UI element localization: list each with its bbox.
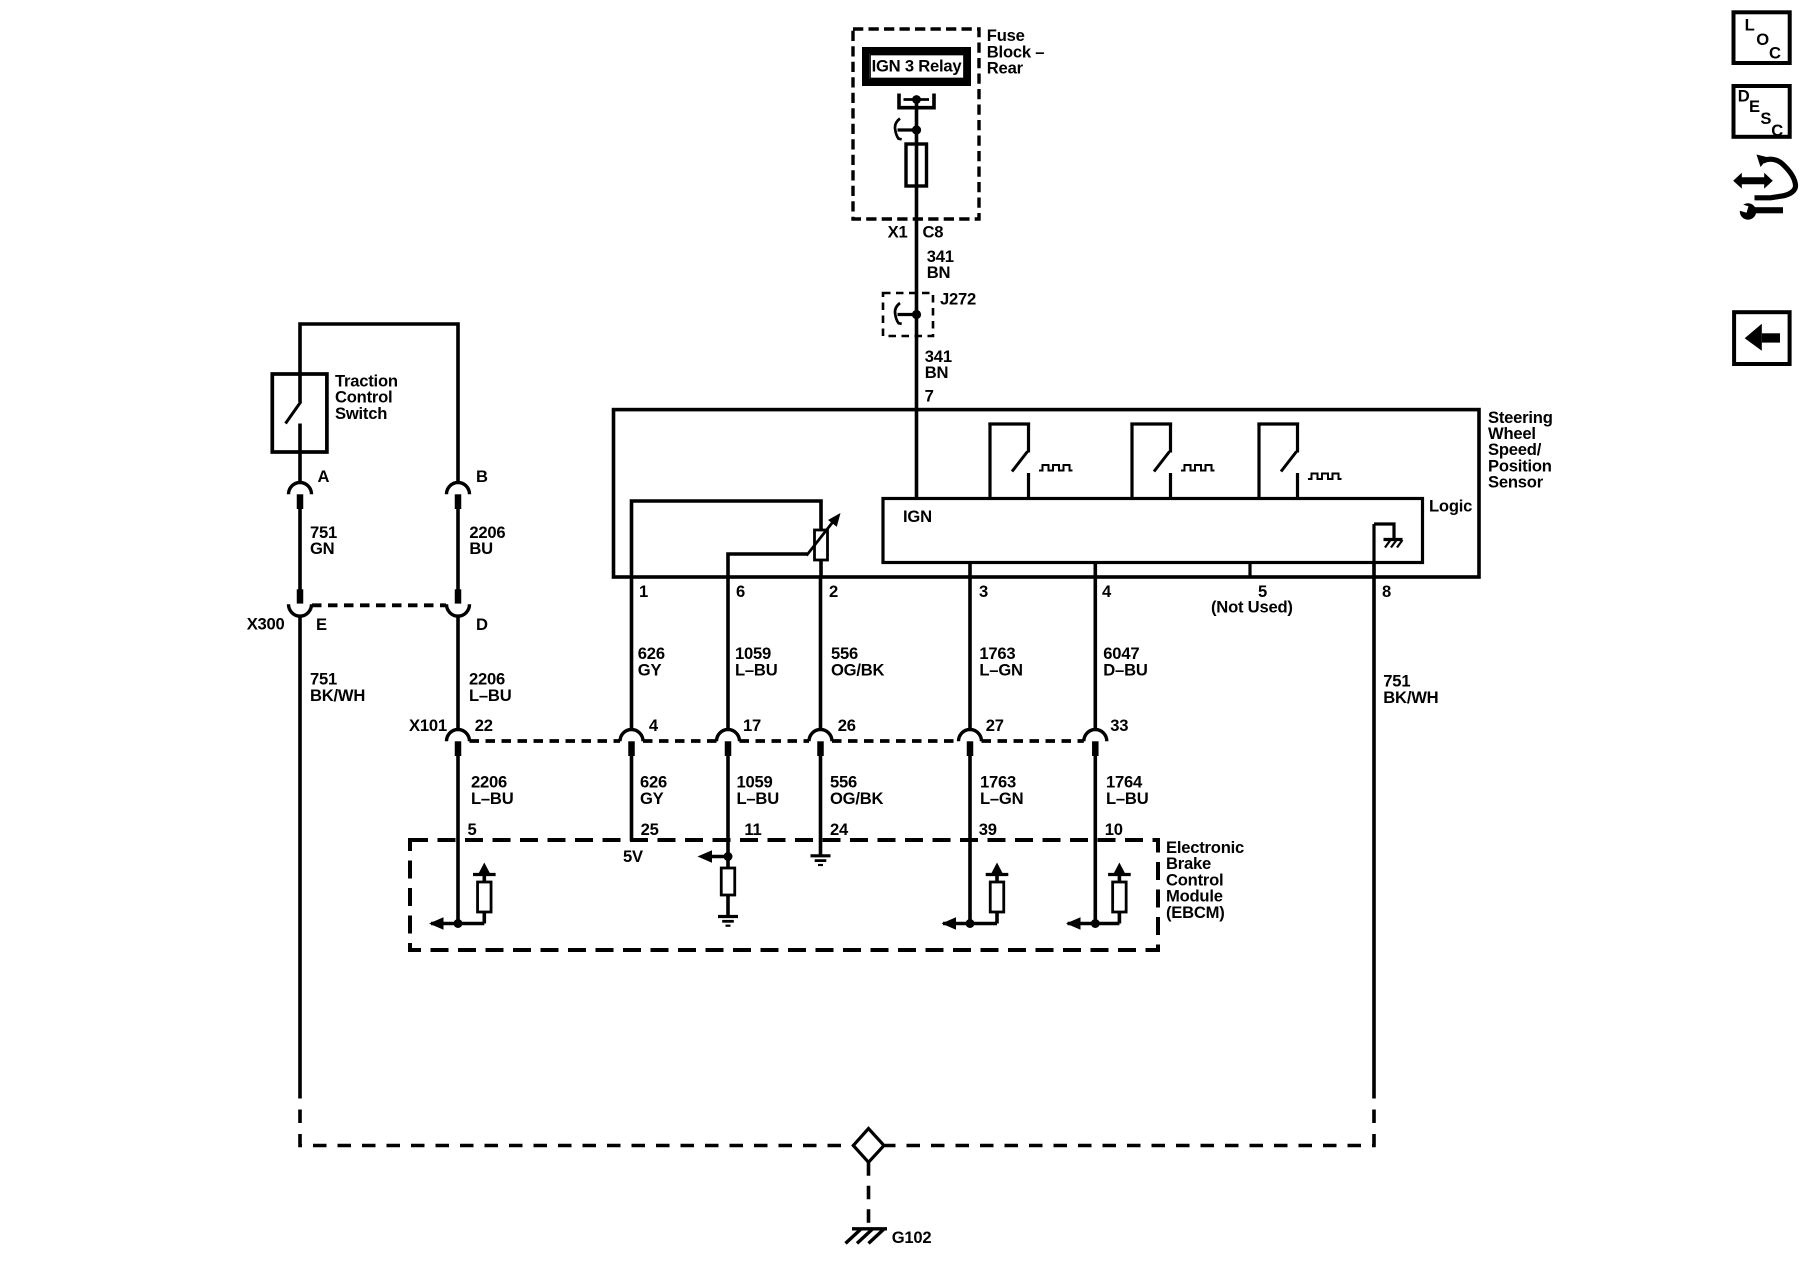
svg-text:L–BU: L–BU <box>737 789 779 808</box>
potentiometer arrow <box>807 521 835 556</box>
svg-text:G102: G102 <box>892 1228 932 1247</box>
X101 pin 27 connector <box>959 730 982 742</box>
svg-text:B: B <box>476 467 488 486</box>
svg-text:8: 8 <box>1382 582 1391 601</box>
svg-text:7: 7 <box>925 387 934 406</box>
EBCM circuit pin 24: ground <box>811 854 831 857</box>
svg-text:OG/BK: OG/BK <box>831 660 885 679</box>
svg-text:BN: BN <box>927 263 951 282</box>
splice J272 dashed box <box>883 293 933 336</box>
connector X101 dashed line <box>470 739 621 743</box>
steering wheel speed/position sensor box <box>614 410 1480 577</box>
X101 pin 4 connector <box>620 730 643 742</box>
svg-text:25: 25 <box>641 820 659 839</box>
svg-text:A: A <box>318 467 330 486</box>
svg-text:6: 6 <box>736 582 745 601</box>
svg-text:E: E <box>1749 97 1760 116</box>
traction control switch box <box>272 374 327 452</box>
square wave 3 <box>1308 474 1342 480</box>
potentiometer <box>815 530 828 560</box>
diagnostic icon double arrow <box>1741 177 1765 184</box>
svg-text:L–BU: L–BU <box>735 660 777 679</box>
wire 751 BK/WH left <box>298 616 302 1085</box>
svg-text:E: E <box>316 615 327 634</box>
svg-text:11: 11 <box>744 820 761 839</box>
DESC icon box <box>1734 86 1790 137</box>
dashed wire splice to G102 <box>867 1162 871 1227</box>
splice diamond <box>853 1129 884 1163</box>
svg-text:C: C <box>1771 121 1783 140</box>
svg-text:Switch: Switch <box>335 404 387 423</box>
svg-text:OG/BK: OG/BK <box>830 789 884 808</box>
EBCM circuit pin 10: junction, left arrow, pull-up resistor <box>1068 922 1120 926</box>
TCS lower stub to pin A <box>298 424 302 483</box>
wire 626 GY to EBCM 25 <box>630 756 634 841</box>
dashed wire 751 BK/WH right to splice <box>885 1085 1374 1146</box>
svg-text:BK/WH: BK/WH <box>310 686 365 705</box>
svg-text:2: 2 <box>829 582 838 601</box>
svg-text:D: D <box>1738 86 1750 105</box>
svg-text:3: 3 <box>979 582 988 601</box>
dashed wire 751 BK/WH left to splice <box>300 1085 852 1146</box>
TCS upper contact stub <box>298 374 302 402</box>
wire 1763 L-GN to EBCM 39 <box>968 756 972 924</box>
svg-text:4: 4 <box>1102 582 1112 601</box>
svg-text:(EBCM): (EBCM) <box>1166 903 1225 922</box>
svg-text:GY: GY <box>640 789 664 808</box>
LOC icon box <box>1734 12 1790 63</box>
svg-text:D: D <box>476 615 488 634</box>
internal ground of logic <box>1374 524 1394 538</box>
svg-text:4: 4 <box>649 716 659 735</box>
wire 1059 L-BU pin6 <box>726 577 730 729</box>
wire 1059 L-BU to EBCM 11 <box>726 756 730 868</box>
X101 pin 33 connector <box>1084 730 1107 742</box>
svg-text:Sensor: Sensor <box>1488 473 1544 492</box>
potentiometer top wire from pin 1 <box>632 501 822 577</box>
wire 6047 D-BU pin4 <box>1094 563 1098 730</box>
X101 pin 22 connector <box>447 730 470 742</box>
svg-text:5V: 5V <box>623 847 643 866</box>
svg-text:17: 17 <box>743 716 761 735</box>
svg-text:S: S <box>1760 109 1771 128</box>
wire 2206 L-BU to EBCM 5 <box>456 756 460 924</box>
TCS switch arm <box>286 402 302 424</box>
relay switch arm <box>898 128 917 131</box>
connector X300 dashed line <box>312 603 446 607</box>
svg-text:24: 24 <box>830 820 849 839</box>
wire pin 8 to ground cap <box>1372 524 1375 563</box>
svg-text:J272: J272 <box>940 290 976 309</box>
svg-text:33: 33 <box>1110 716 1128 735</box>
wire 626 GY pin1 <box>630 577 634 729</box>
X101 pin 26 connector <box>809 730 832 742</box>
EBCM circuit pin 11: left arrow junction, resistor to ground <box>711 855 728 859</box>
X101 pin 17 connector <box>717 730 740 742</box>
svg-text:C: C <box>1769 44 1781 63</box>
svg-text:X101: X101 <box>409 716 447 735</box>
svg-text:Logic: Logic <box>1429 497 1472 516</box>
wire 556 OG/BK to EBCM 24 <box>819 756 823 856</box>
wire 2206 BU <box>456 509 460 590</box>
relay contact bracket <box>899 94 934 108</box>
wire from relay through fuse to SWPS pin 7 <box>915 100 919 499</box>
pin B connector <box>447 483 470 495</box>
svg-text:X300: X300 <box>247 615 285 634</box>
svg-text:27: 27 <box>986 716 1004 735</box>
fuse <box>906 144 927 186</box>
pin 5 stub (not used) <box>1248 563 1251 578</box>
ground G102 symbol <box>852 1227 887 1230</box>
svg-text:L–BU: L–BU <box>471 789 513 808</box>
fuse block - rear dashed box <box>853 29 979 219</box>
EBCM circuit pin 5: junction, left arrow, pull-up resistor <box>431 922 484 926</box>
svg-text:(Not Used): (Not Used) <box>1211 598 1293 617</box>
potentiometer wiper wire from pin 6 <box>728 554 807 577</box>
svg-text:GN: GN <box>310 539 334 558</box>
svg-text:BK/WH: BK/WH <box>1383 688 1438 707</box>
svg-text:10: 10 <box>1105 820 1123 839</box>
svg-text:L–BU: L–BU <box>469 686 511 705</box>
logic box <box>883 499 1423 563</box>
IGN 3 Relay label box <box>866 51 968 83</box>
svg-text:5: 5 <box>468 820 477 839</box>
X300 pin D connector <box>455 589 462 603</box>
svg-text:C8: C8 <box>923 223 944 242</box>
sensor switch 1 <box>988 422 1030 425</box>
svg-text:IGN: IGN <box>903 507 932 526</box>
wire 751 BK/WH pin8 <box>1372 563 1376 1086</box>
wire pin 2 from potentiometer <box>819 560 823 577</box>
svg-text:1: 1 <box>639 582 648 601</box>
svg-text:IGN 3 Relay: IGN 3 Relay <box>872 57 963 76</box>
svg-text:O: O <box>1756 30 1769 49</box>
pin A connector <box>289 483 312 495</box>
wire 1764 L-BU to EBCM 10 <box>1094 756 1098 924</box>
diagnostic icon curved arrow <box>1755 159 1796 198</box>
wire 1763 L-GN pin3 <box>968 563 972 730</box>
square wave 2 <box>1181 465 1215 471</box>
square wave 1 <box>1039 465 1073 471</box>
sensor switch 2 <box>1130 422 1172 425</box>
svg-text:26: 26 <box>838 716 856 735</box>
svg-text:39: 39 <box>979 820 997 839</box>
EBCM dashed box <box>410 840 1158 950</box>
svg-text:L–GN: L–GN <box>979 660 1022 679</box>
svg-text:L: L <box>1745 16 1755 35</box>
svg-text:X1: X1 <box>888 223 908 242</box>
svg-text:BU: BU <box>469 539 493 558</box>
wire 556 OG/BK pin2 <box>819 577 823 729</box>
wire from TCS top to pin B <box>300 324 458 481</box>
X300 pin E connector <box>297 589 304 603</box>
svg-text:L–BU: L–BU <box>1106 789 1148 808</box>
diagnostic icon wrench <box>1740 203 1756 219</box>
back arrow icon box <box>1734 312 1790 364</box>
svg-text:D–BU: D–BU <box>1103 660 1147 679</box>
sensor switch 3 <box>1257 422 1299 425</box>
svg-text:Rear: Rear <box>987 59 1024 78</box>
svg-text:BN: BN <box>925 363 949 382</box>
wire 751 GN <box>298 509 302 590</box>
svg-text:22: 22 <box>475 716 493 735</box>
EBCM circuit pin 39: junction, left arrow, pull-up resistor <box>943 922 997 926</box>
splice J272 symbol <box>898 313 917 316</box>
wire 2206 L-BU <box>456 616 460 729</box>
svg-text:L–GN: L–GN <box>980 789 1023 808</box>
svg-text:GY: GY <box>638 660 662 679</box>
